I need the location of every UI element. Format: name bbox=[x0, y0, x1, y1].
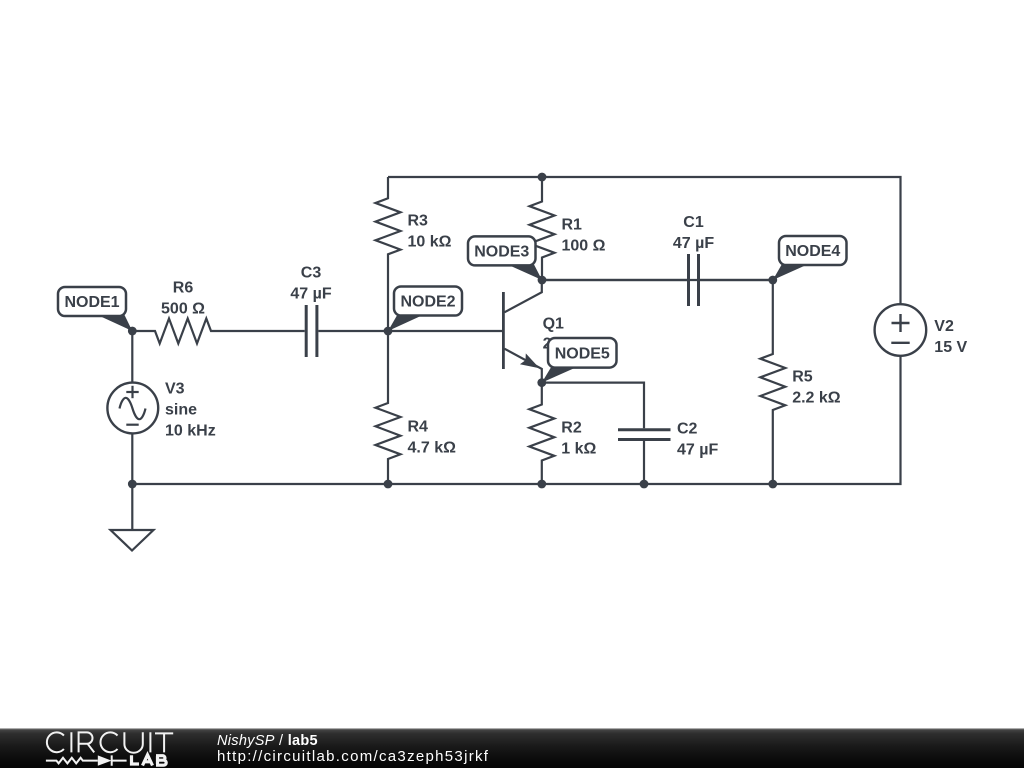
svg-text:R6: R6 bbox=[173, 280, 194, 297]
svg-text:V3: V3 bbox=[165, 381, 185, 398]
svg-text:C1: C1 bbox=[683, 214, 704, 231]
svg-text:C3: C3 bbox=[301, 264, 322, 281]
svg-text:10 kΩ: 10 kΩ bbox=[408, 234, 452, 251]
svg-text:R5: R5 bbox=[792, 369, 813, 386]
svg-text:R4: R4 bbox=[408, 419, 429, 436]
svg-text:10 kHz: 10 kHz bbox=[165, 423, 216, 440]
svg-text:47 µF: 47 µF bbox=[673, 235, 714, 252]
svg-text:4.7 kΩ: 4.7 kΩ bbox=[408, 440, 457, 457]
svg-text:NODE3: NODE3 bbox=[474, 244, 529, 261]
svg-text:500 Ω: 500 Ω bbox=[161, 301, 205, 318]
svg-text:47 µF: 47 µF bbox=[677, 442, 718, 459]
svg-text:NODE4: NODE4 bbox=[785, 243, 840, 260]
svg-text:NODE2: NODE2 bbox=[400, 294, 455, 311]
svg-text:V2: V2 bbox=[934, 318, 954, 335]
svg-text:sine: sine bbox=[165, 402, 197, 419]
svg-text:R2: R2 bbox=[561, 420, 582, 437]
svg-text:NODE5: NODE5 bbox=[555, 346, 610, 363]
svg-text:15 V: 15 V bbox=[934, 339, 967, 356]
svg-text:1 kΩ: 1 kΩ bbox=[561, 441, 596, 458]
svg-text:NishySP / lab5: NishySP / lab5 bbox=[217, 733, 318, 749]
svg-text:Q1: Q1 bbox=[543, 316, 564, 333]
svg-text:47 µF: 47 µF bbox=[290, 285, 331, 302]
svg-text:100 Ω: 100 Ω bbox=[562, 238, 606, 255]
svg-text:R1: R1 bbox=[562, 217, 583, 234]
svg-text:NODE1: NODE1 bbox=[64, 294, 119, 311]
svg-text:http://circuitlab.com/ca3zeph5: http://circuitlab.com/ca3zeph53jrkf bbox=[217, 748, 489, 765]
svg-text:C2: C2 bbox=[677, 421, 698, 438]
svg-text:R3: R3 bbox=[408, 213, 429, 230]
svg-text:2.2 kΩ: 2.2 kΩ bbox=[792, 390, 841, 407]
